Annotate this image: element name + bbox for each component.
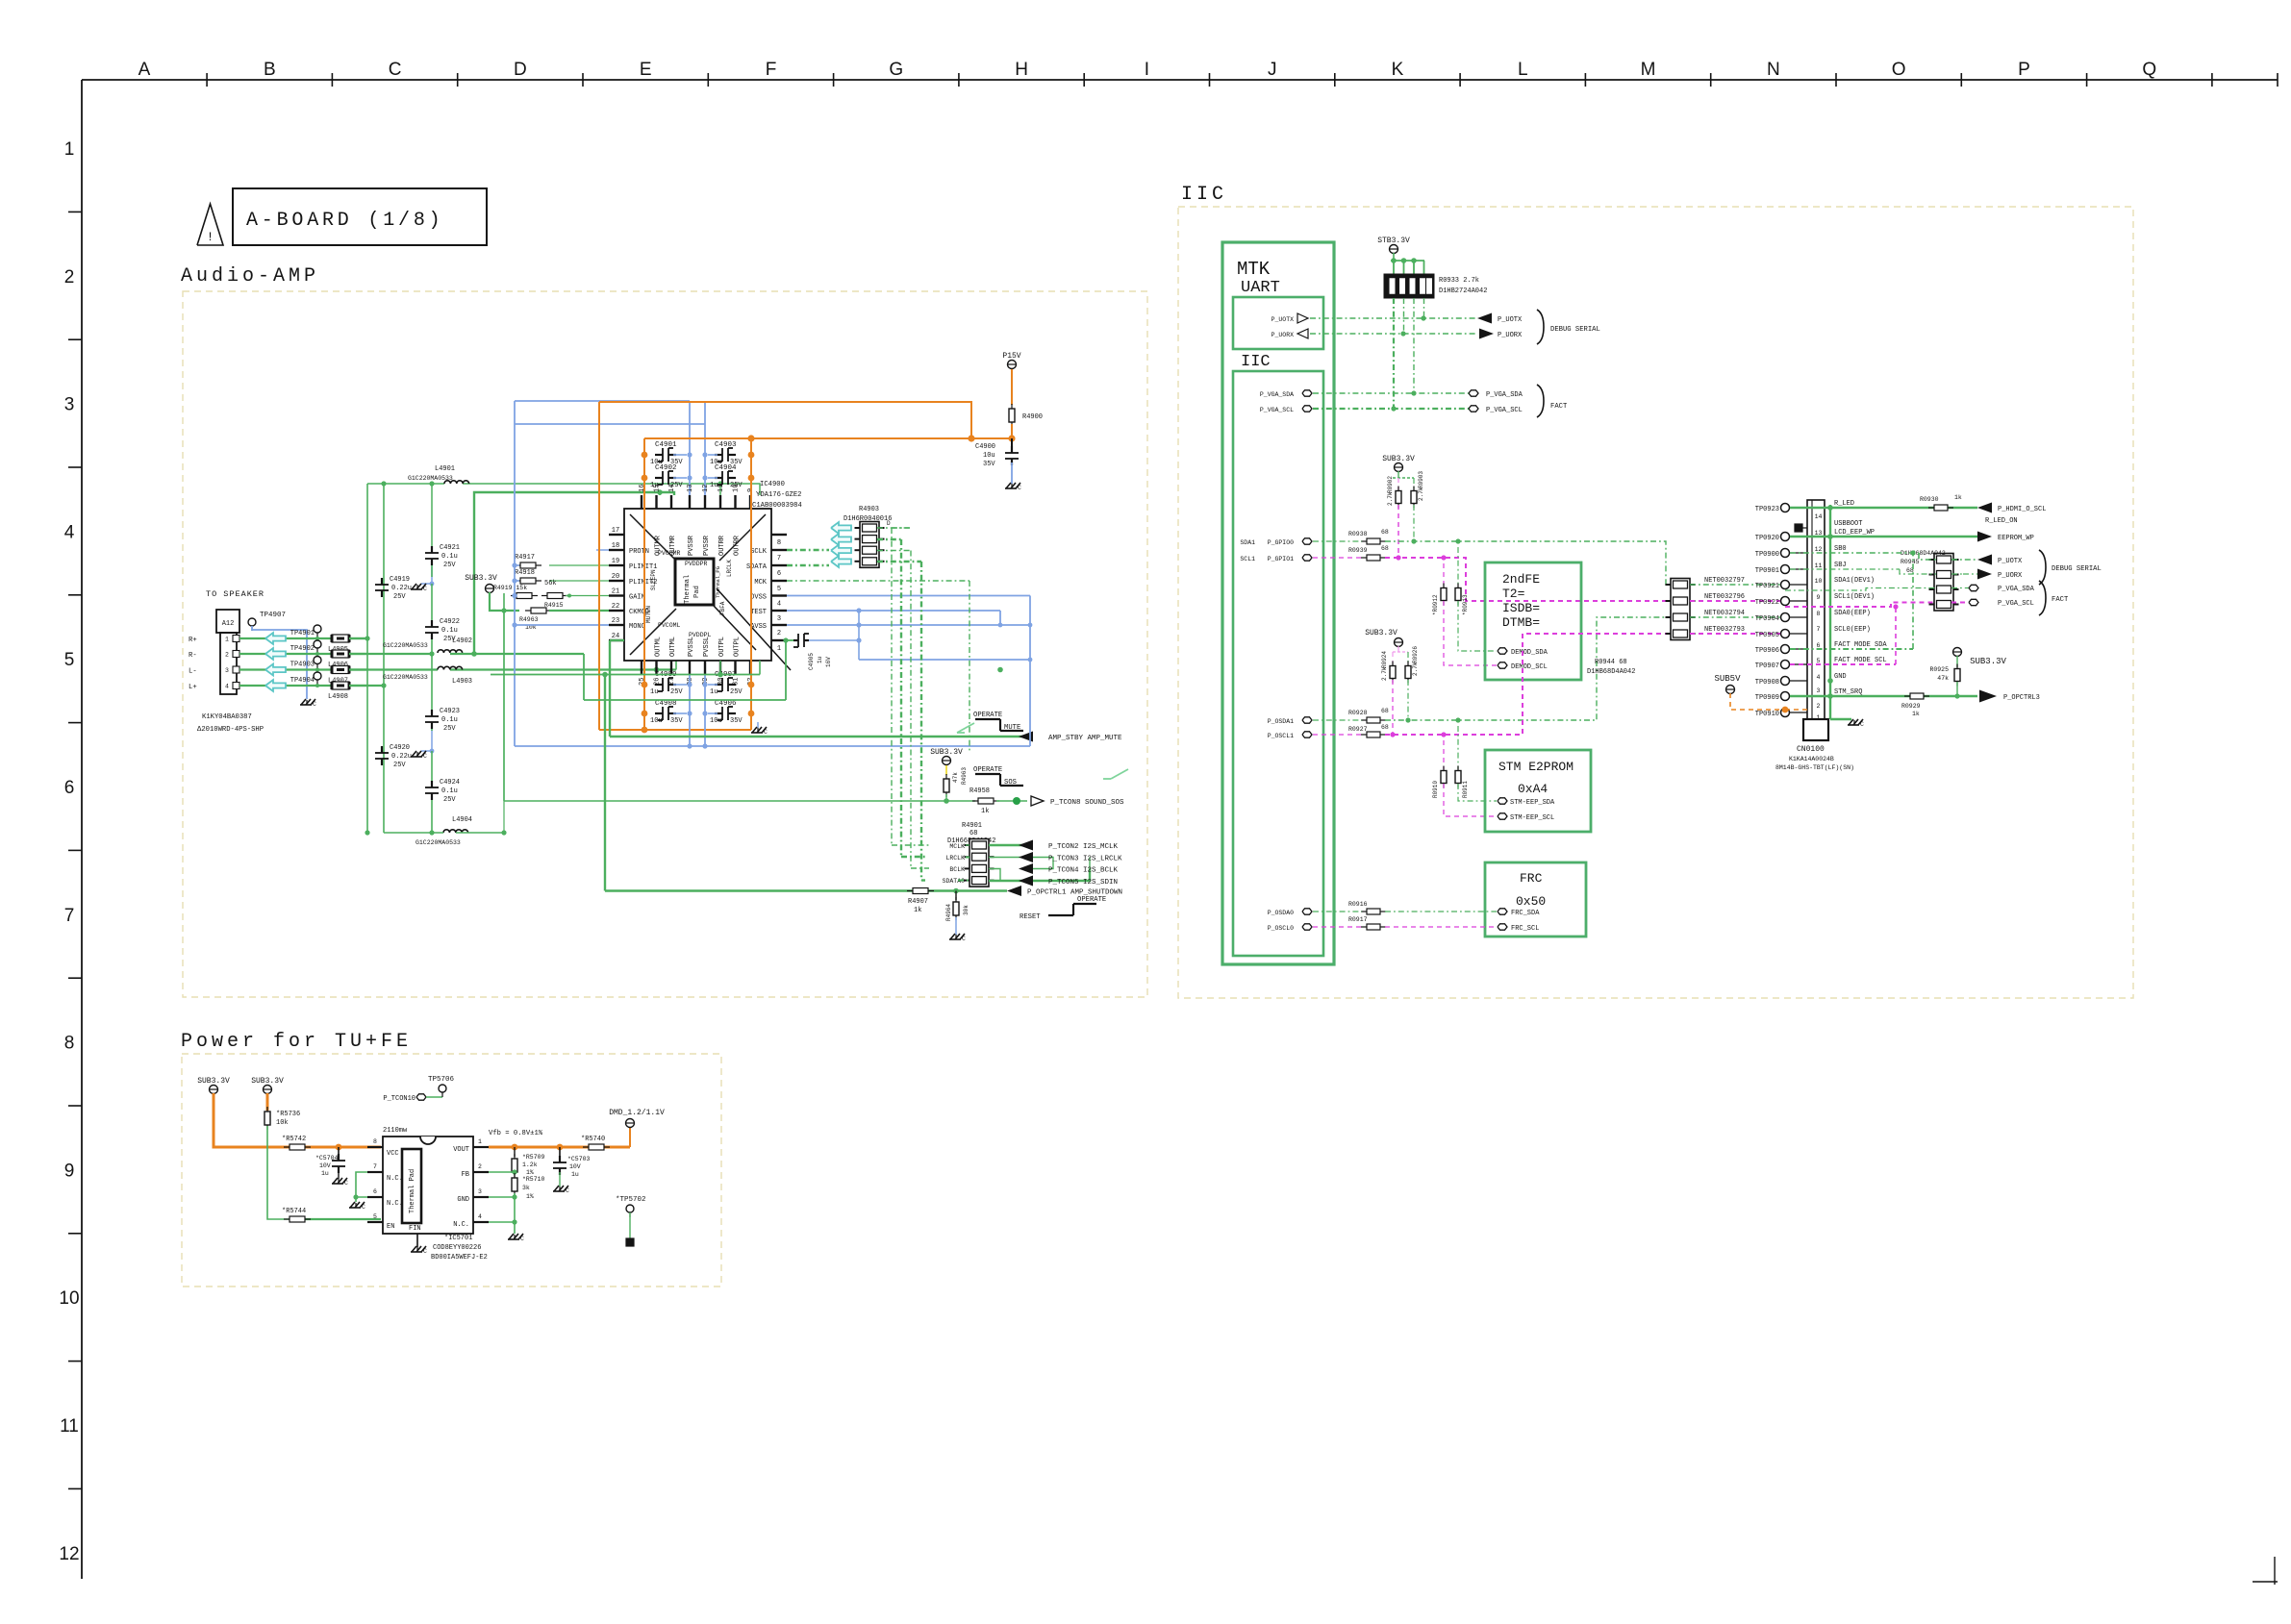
svg-text:C4922: C4922	[440, 618, 460, 626]
wire top bus A y503 (green)	[367, 481, 760, 495]
svg-text:P_TCON3 I2S_LRCLK: P_TCON3 I2S_LRCLK	[1048, 856, 1122, 863]
svg-text:OPERATE: OPERATE	[1077, 896, 1106, 904]
svg-text:C: C	[520, 1236, 524, 1242]
testpoint TP0920	[1755, 533, 1807, 543]
arrow P_TCON8 SOUND_SOS	[1031, 796, 1124, 807]
svg-text:USBBOOT: USBBOOT	[1834, 520, 1862, 528]
wire UORX out dash (green)	[1951, 573, 1977, 575]
wire P_VGA_SCL dash (green)	[1313, 406, 1469, 411]
ground below NC jog	[349, 1197, 365, 1211]
resistor R0903 2.7k	[1411, 471, 1424, 509]
svg-text:P_OSDA0: P_OSDA0	[1268, 910, 1294, 916]
svg-text:1: 1	[777, 645, 781, 653]
svg-text:DVSS: DVSS	[750, 594, 767, 602]
testpoint TP0905	[1755, 630, 1807, 640]
wire SUB5V dash (orange)	[1730, 693, 1807, 712]
inductor L4902	[383, 637, 472, 653]
svg-text:TP0907: TP0907	[1755, 662, 1779, 670]
svg-text:3: 3	[64, 395, 75, 415]
svg-text:47k: 47k	[952, 772, 959, 783]
svg-text:Q: Q	[2142, 60, 2156, 80]
resistor R0911	[1455, 726, 1469, 798]
wire FACT_MODE_SDA dash (green)	[1790, 550, 1916, 649]
svg-text:8: 8	[1817, 611, 1821, 617]
svg-text:*TP5702: *TP5702	[616, 1196, 646, 1204]
svg-text:K1KY04BA0387: K1KY04BA0387	[202, 713, 252, 721]
svg-text:R-: R-	[189, 652, 197, 660]
svg-text:OUTRR: OUTRR	[734, 535, 742, 556]
wire R4903 right dashes	[877, 528, 921, 562]
testpoint TP0910	[1755, 709, 1807, 719]
testpoint TP0908	[1755, 677, 1807, 687]
block IIC outline	[1233, 371, 1323, 956]
svg-text:25V: 25V	[730, 482, 743, 489]
ground below R5710	[508, 1234, 524, 1242]
svg-text:2ndFE: 2ndFE	[1502, 572, 1540, 587]
wire R0933 down dashes	[1394, 298, 1424, 409]
ground below C4900	[1005, 483, 1021, 491]
svg-text:R0945: R0945	[1901, 559, 1920, 565]
svg-text:4: 4	[478, 1213, 482, 1220]
svg-text:4: 4	[1817, 674, 1821, 681]
svg-text:TO SPEAKER: TO SPEAKER	[206, 589, 264, 599]
wire L4902 out (green)	[450, 654, 584, 700]
inductor L4905	[328, 635, 349, 654]
svg-text:R0939: R0939	[1348, 547, 1368, 554]
wire green vert x634 to AMP trunk	[610, 640, 624, 737]
svg-text:C4920: C4920	[390, 744, 410, 752]
svg-text:YDA176-GZE2: YDA176-GZE2	[756, 491, 801, 499]
svg-text:3: 3	[777, 615, 781, 623]
IC5701 thermal pad	[402, 1149, 421, 1223]
port FRC_SCL	[1498, 924, 1539, 933]
port P_GPIO1	[1240, 555, 1312, 562]
svg-text:N.C.: N.C.	[453, 1221, 469, 1229]
svg-text:B: B	[264, 60, 276, 80]
wire R4963 down (green)	[944, 794, 949, 804]
svg-text:1: 1	[64, 139, 75, 160]
svg-text:11: 11	[60, 1416, 79, 1437]
IC5701 part labels	[431, 1235, 488, 1262]
svg-text:D1HB68D4A042: D1HB68D4A042	[1901, 550, 1946, 557]
svg-text:25V: 25V	[393, 762, 406, 769]
svg-text:FACT MODE SCL: FACT MODE SCL	[1834, 657, 1887, 664]
wire R0926 down (green)	[1405, 680, 1410, 723]
svg-text:*R0913: *R0913	[1462, 594, 1469, 615]
svg-text:R0924: R0924	[1381, 651, 1388, 668]
wire blue row18 stub	[596, 549, 609, 551]
resistor R0930 1k	[1920, 494, 1962, 511]
svg-text:FACT MODE SDA: FACT MODE SDA	[1834, 641, 1887, 649]
svg-text:7: 7	[373, 1163, 377, 1170]
wire orange VOUT to DMD	[489, 1128, 630, 1150]
labels MCLK LRCLK BCLK SDATA0	[943, 843, 966, 885]
resistor R5709 1.2k	[512, 1147, 545, 1177]
Audio-AMP section dashed box	[183, 291, 1147, 997]
svg-text:2110mw: 2110mw	[383, 1127, 408, 1135]
svg-text:A: A	[138, 60, 151, 80]
brace FACT	[1537, 385, 1568, 417]
wire row19	[515, 564, 609, 566]
port P_GPIO0	[1240, 538, 1312, 546]
svg-text:C4924: C4924	[440, 779, 460, 787]
svg-text:SDA0(EEP): SDA0(EEP)	[1834, 610, 1871, 617]
svg-text:OUTML: OUTML	[655, 637, 663, 657]
svg-text:5: 5	[373, 1213, 377, 1220]
svg-text:68: 68	[1381, 724, 1389, 731]
resistor array R0944	[1587, 579, 1696, 677]
svg-text:*R5740: *R5740	[581, 1136, 605, 1143]
svg-text:!: !	[207, 230, 214, 244]
svg-text:L4908: L4908	[328, 693, 348, 701]
svg-text:R0903: R0903	[1418, 471, 1424, 488]
svg-text:C4901: C4901	[655, 441, 677, 449]
svg-text:18: 18	[612, 542, 619, 550]
wire SB0 dash (green)	[1790, 553, 1936, 560]
svg-text:TP0901: TP0901	[1755, 567, 1779, 575]
svg-text:21: 21	[612, 588, 619, 596]
svg-text:25V: 25V	[393, 593, 406, 601]
ground near C4919	[411, 562, 434, 592]
svg-text:STB3.3V: STB3.3V	[1377, 237, 1410, 245]
svg-text:IC4900: IC4900	[760, 481, 785, 488]
port STM-EEP_SCL	[1498, 813, 1554, 822]
IC5701 right pins	[453, 1138, 489, 1229]
svg-text:TP5706: TP5706	[428, 1076, 455, 1084]
svg-text:R0911: R0911	[1462, 781, 1469, 798]
label MTK	[1237, 259, 1271, 280]
wire row20	[515, 580, 609, 582]
wire row21	[515, 595, 609, 597]
svg-text:D: D	[514, 60, 527, 80]
wire orange SUB to VCC	[214, 1093, 381, 1150]
svg-text:G: G	[889, 60, 903, 80]
svg-text:2: 2	[225, 652, 229, 659]
wire STB3.3V bus (green)	[1391, 253, 1424, 274]
wire blue vert x717 top	[687, 401, 692, 495]
wire NET0032797	[1690, 577, 1787, 587]
connector A12 TO SPEAKER label	[206, 589, 264, 599]
svg-text:10k: 10k	[276, 1119, 289, 1127]
arrow P_OPCTRL3	[1979, 690, 2040, 703]
svg-text:9: 9	[64, 1161, 75, 1181]
testpoint TP0900	[1755, 549, 1807, 560]
svg-text:FACT: FACT	[2052, 596, 2069, 604]
IC4900 thermal pad	[675, 559, 714, 605]
wire R0924 down (magenta)	[1390, 680, 1395, 737]
capacitor C4920	[375, 744, 412, 769]
svg-text:6: 6	[777, 570, 781, 578]
svg-text:SCLK: SCLK	[750, 548, 768, 556]
svg-text:GND: GND	[1834, 673, 1847, 681]
svg-text:K1KA14A0024B: K1KA14A0024B	[1789, 756, 1834, 762]
svg-text:SLEEPN: SLEEPN	[650, 569, 657, 590]
power SUB3.3V pw2	[251, 1077, 284, 1094]
svg-text:R4918: R4918	[515, 569, 535, 577]
wire dash vert x937 (green)	[900, 539, 902, 857]
svg-text:C4903: C4903	[715, 441, 737, 449]
svg-text:10u: 10u	[710, 717, 722, 725]
wire FACT_MODE_SCL dash (magenta)	[1790, 604, 1899, 664]
svg-text:1u: 1u	[817, 656, 823, 663]
svg-text:L4901: L4901	[435, 465, 455, 473]
wire NC jog (green)	[353, 1172, 367, 1200]
svg-text:L-: L-	[189, 668, 197, 676]
resistor R0926 2.7k	[1405, 646, 1419, 684]
power SUB3.3V (audio)	[465, 574, 497, 593]
svg-text:UART: UART	[1241, 279, 1280, 297]
svg-text:TP0920: TP0920	[1755, 535, 1779, 542]
power STB3.3V	[1377, 237, 1410, 254]
svg-text:EN: EN	[387, 1223, 394, 1231]
capacitor C4909	[650, 671, 683, 696]
arrow P_UORX right	[1479, 329, 1523, 340]
testpoint TP0921	[1755, 581, 1807, 591]
svg-text:EEPROM_WP: EEPROM_WP	[1998, 535, 2034, 542]
cyan arrow SCLK row	[831, 522, 851, 567]
wire NET0032796	[1690, 593, 1787, 603]
svg-text:R0929: R0929	[1901, 703, 1921, 710]
svg-text:G1C220MA0533: G1C220MA0533	[415, 839, 461, 846]
wire CN vertical (green)	[1827, 505, 1833, 719]
svg-text:Pad: Pad	[693, 586, 701, 598]
svg-text:P_VGA_SDA: P_VGA_SDA	[1486, 391, 1523, 399]
wire P_VGA_SDA dash (green)	[1313, 390, 1469, 395]
wire blue vert x733 top	[702, 401, 707, 495]
resistor R0925 47k	[1929, 656, 1960, 687]
svg-text:BD00IA5WEFJ-E2: BD00IA5WEFJ-E2	[431, 1254, 488, 1262]
svg-text:SUB5V: SUB5V	[1714, 674, 1741, 684]
wire green y728	[584, 640, 786, 700]
svg-text:Audio-AMP: Audio-AMP	[181, 265, 319, 287]
wire VGA_SCL out dash (magenta)	[1951, 602, 1969, 604]
wire bus y866 (green)	[384, 832, 504, 834]
svg-text:D: D	[887, 520, 891, 527]
svg-text:M: M	[1641, 60, 1656, 80]
svg-text:PVSSR: PVSSR	[688, 535, 695, 556]
cyan arrow TP4904	[265, 680, 286, 691]
port P_OSDA1	[1268, 717, 1312, 725]
svg-text:P_UOTX: P_UOTX	[1998, 558, 2023, 565]
arrow P_TCON4	[1019, 863, 1119, 875]
wire speaker row TP4902 (green)	[239, 653, 367, 655]
svg-text:SUB3.3V: SUB3.3V	[197, 1077, 230, 1086]
svg-text:Vfb = 0.8V±1%: Vfb = 0.8V±1%	[489, 1130, 543, 1137]
svg-text:1%: 1%	[526, 1193, 534, 1200]
svg-text:P_TCON5 I2S_SDIN: P_TCON5 I2S_SDIN	[1048, 879, 1118, 887]
capacitor C4906	[710, 700, 743, 725]
wire P_TCON10 to TP (green)	[426, 1096, 442, 1098]
svg-text:SDA1(DEV1): SDA1(DEV1)	[1834, 577, 1875, 585]
resistor R0928	[1348, 708, 1389, 723]
svg-text:L4904: L4904	[452, 816, 472, 824]
wire R0910 to STM-EEP_SCL (magenta)	[1444, 784, 1497, 816]
resistor array R4901 labels	[947, 822, 995, 845]
resistor array R0933	[1384, 274, 1487, 298]
svg-text:J: J	[1268, 60, 1277, 80]
svg-text:47k: 47k	[1937, 675, 1949, 682]
connector CN0100 labels	[1775, 745, 1854, 771]
wire LCD_EEP_WP row (green)	[1790, 536, 1977, 537]
wire rail x382 (green)	[365, 484, 369, 836]
power SUB3.3V (sos)	[930, 748, 963, 765]
svg-text:1u: 1u	[710, 482, 718, 489]
svg-text:R4915: R4915	[544, 602, 564, 609]
svg-text:AMP_STBY AMP_MUTE: AMP_STBY AMP_MUTE	[1048, 735, 1122, 742]
svg-text:2: 2	[478, 1163, 482, 1170]
wire P_UOTX dash (green)	[1310, 315, 1477, 320]
svg-text:12: 12	[702, 485, 710, 492]
resistor R0913	[1455, 547, 1469, 615]
wire I2S out MCLK (green)	[989, 844, 1033, 846]
svg-text:H: H	[1015, 60, 1028, 80]
svg-text:STM-EEP_SDA: STM-EEP_SDA	[1510, 799, 1555, 807]
wire VGA_SDA out dash (green)	[1951, 587, 1969, 589]
svg-text:TP4904: TP4904	[290, 677, 315, 685]
svg-text:R0916: R0916	[1348, 901, 1368, 908]
svg-text:FBFA: FBFA	[719, 601, 726, 615]
svg-text:VCC: VCC	[387, 1150, 399, 1158]
wire SCLK dashes (green)	[787, 549, 829, 551]
power SUB3.3V cn	[1953, 648, 2007, 667]
svg-text:Thermal: Thermal	[684, 575, 692, 604]
connector CN0100 signal names	[1834, 500, 1887, 696]
inductor L4908	[328, 682, 349, 701]
arrow P_TCON2	[1019, 840, 1119, 852]
svg-text:9: 9	[1817, 594, 1821, 601]
port P_OSCL1	[1268, 732, 1312, 739]
svg-text:Thermal Pad: Thermal Pad	[409, 1169, 416, 1213]
mark green tick sos	[1103, 769, 1128, 779]
svg-text:SUB3.3V: SUB3.3V	[1365, 629, 1397, 637]
ruler row numbers 1-12	[59, 139, 82, 1564]
svg-text:P_OSCL1: P_OSCL1	[1268, 733, 1294, 739]
svg-text:SCL0(EEP): SCL0(EEP)	[1834, 626, 1871, 634]
svg-text:P_GPIO1: P_GPIO1	[1268, 556, 1294, 562]
svg-text:RESET: RESET	[1020, 913, 1041, 921]
svg-text:P_HDMI_O_SCL: P_HDMI_O_SCL	[1998, 506, 2046, 513]
wire MCK dashes (green)	[787, 581, 969, 752]
svg-text:LRCLK: LRCLK	[945, 855, 965, 862]
svg-text:TP4903: TP4903	[290, 662, 315, 669]
resistor R0902 2.7k	[1387, 476, 1401, 509]
symbol OPERATE SOS step	[973, 766, 1114, 790]
svg-text:TP0909: TP0909	[1755, 694, 1779, 702]
svg-text:G1C220MA0533: G1C220MA0533	[383, 674, 428, 681]
ground CN0100	[1848, 719, 1864, 728]
block FRC outline	[1485, 862, 1586, 937]
wire orange rail left x670	[642, 438, 648, 733]
wire green R5736 to EN	[267, 1126, 381, 1219]
wire BCLK dash	[911, 867, 929, 869]
block MTK outline	[1222, 242, 1334, 964]
port P_VGA_SCL cn	[1969, 599, 2034, 608]
resistor R4918	[515, 569, 541, 584]
svg-text:4: 4	[777, 601, 781, 609]
IC4900 top pins	[639, 485, 755, 556]
wire R0913 to DEMOD_SDA (green)	[1458, 601, 1497, 651]
port P_UOTX left	[1271, 313, 1308, 323]
svg-text:35V: 35V	[983, 461, 995, 468]
wire orange left drop x623	[598, 402, 600, 730]
port P_TCON10	[383, 1094, 426, 1103]
svg-text:TP0904: TP0904	[1755, 615, 1779, 623]
svg-text:10: 10	[1815, 578, 1823, 585]
connector CN0100 shell	[1803, 719, 1828, 740]
svg-text:19: 19	[612, 558, 619, 565]
capacitor C4924	[425, 779, 460, 804]
svg-text:C: C	[764, 729, 768, 736]
svg-text:12: 12	[59, 1544, 79, 1564]
testpoint TP4901	[290, 625, 321, 640]
wire speaker row TP4903 (green)	[239, 668, 367, 670]
svg-text:C4923: C4923	[440, 708, 460, 715]
svg-text:FACT: FACT	[1550, 403, 1568, 411]
svg-text:NET0032796: NET0032796	[1704, 593, 1745, 601]
wire P_UORX dash (green)	[1310, 331, 1477, 336]
capacitor C4908	[650, 700, 683, 725]
svg-text:30k: 30k	[963, 905, 969, 915]
wire sub33 bus	[1393, 471, 1414, 478]
inductor L4904	[415, 816, 472, 846]
svg-text:MONO: MONO	[629, 623, 645, 631]
IC4900 part labels	[752, 481, 802, 510]
svg-text:R4958: R4958	[969, 787, 990, 795]
resistor R0924 2.7k	[1381, 651, 1396, 684]
wire C5703 gnd (green)	[559, 1172, 561, 1187]
wire R_LED row (green)	[1790, 507, 1977, 509]
svg-text:8: 8	[777, 539, 781, 547]
svg-text:OUTPL: OUTPL	[718, 637, 726, 657]
section label Power for TU+FE	[181, 1031, 412, 1053]
resistor R0938	[1348, 529, 1389, 544]
Power section dashed box	[182, 1054, 721, 1287]
svg-text:56k: 56k	[544, 580, 557, 587]
port P_OSDA0	[1268, 909, 1312, 916]
testpoint TP0923	[1755, 504, 1807, 514]
svg-text:O: O	[1892, 60, 1906, 80]
ruler column letters A-Q	[138, 60, 2278, 87]
svg-text:R_LED_ON: R_LED_ON	[1985, 517, 2018, 525]
wire row L+ to rail	[349, 685, 384, 687]
svg-text:F: F	[766, 60, 777, 80]
svg-text:T2=: T2=	[1502, 587, 1525, 601]
resistor R4900	[1009, 404, 1043, 427]
testpoint TP0909	[1755, 692, 1807, 703]
svg-text:TP0906: TP0906	[1755, 647, 1779, 655]
svg-text:C: C	[423, 586, 427, 592]
wire row R- to coil L4902	[349, 653, 432, 655]
svg-text:SOS: SOS	[1004, 779, 1017, 787]
svg-text:FRC: FRC	[1520, 871, 1543, 886]
svg-text:3k: 3k	[522, 1185, 530, 1191]
wire SDA1 dash (green)	[1313, 538, 1673, 585]
svg-text:TP4902: TP4902	[290, 645, 315, 653]
svg-text:SDATA: SDATA	[746, 563, 768, 571]
svg-text:OPERATE: OPERATE	[973, 766, 1002, 774]
capacitor C4900	[975, 438, 1019, 468]
wire blue bus y776	[515, 745, 1030, 747]
testpoint TP0904	[1755, 613, 1807, 624]
svg-text:P15V: P15V	[1002, 352, 1020, 361]
wire AMP_STBY trunk y766 (green)	[610, 736, 1033, 738]
title box A-BOARD (1/8)	[233, 188, 487, 245]
svg-text:TP0921: TP0921	[1755, 583, 1779, 590]
svg-text:N.C.: N.C.	[387, 1200, 403, 1208]
wire orange bus y456	[644, 435, 1012, 441]
svg-text:25V: 25V	[443, 796, 456, 804]
svg-text:P: P	[2018, 60, 2030, 80]
